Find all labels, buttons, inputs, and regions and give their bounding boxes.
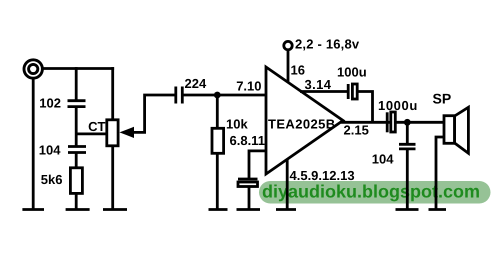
svg-text:16: 16 [291,63,305,78]
svg-text:CT: CT [88,119,105,134]
wire C5 to ground [248,187,251,210]
wire pin 16 [287,51,290,84]
capacitor C4 100u [348,84,357,99]
supply terminal 2,2-16,8v [284,41,292,49]
wire C7 to ground [406,149,409,209]
wire C2 to R1 [75,153,78,169]
svg-text:2,2 - 16,8v: 2,2 - 16,8v [295,37,360,52]
wire node to R2 [216,95,219,128]
capacitor C5 bypass [238,179,258,187]
wire R2 to ground [216,153,219,209]
ground R2 [209,208,228,211]
watermark pill diyaudioku.blogspot.com [259,181,491,204]
svg-text:2.15: 2.15 [344,123,369,138]
junction node output [404,119,411,126]
svg-text:102: 102 [39,96,61,111]
junction node input [214,92,221,99]
ground jack [22,208,44,211]
wire pin 4.5.9.12.13 to ground [286,159,289,209]
wire jack down to ground [32,78,35,209]
wire C1 to C2 [75,107,78,147]
capacitor C1 102 [68,101,86,107]
wire node to C7 [406,122,409,144]
input jack J1 [24,60,42,78]
svg-text:diyaudioku.blogspot.com: diyaudioku.blogspot.com [262,182,480,202]
svg-text:5k6: 5k6 [41,172,63,187]
capacitor C3 224 [176,87,183,104]
svg-text:6.8.11: 6.8.11 [230,133,265,148]
svg-text:3.14: 3.14 [305,77,332,92]
capacitor C7 104 [399,144,416,149]
wire R1 to ground [75,193,78,209]
resistor R1 5k6 [70,168,82,194]
wire pin 2.15 output rail [341,121,444,124]
speaker SP [444,107,468,153]
resistor R2 10k [212,128,224,153]
ground pot [103,208,127,211]
svg-text:100u: 100u [337,65,367,80]
wire jack to top rail [43,67,115,70]
wiper arrow of CT [120,95,176,138]
svg-text:SP: SP [433,91,452,107]
wire pin 6.8.11 [249,151,265,178]
capacitor C6 1000u [387,112,395,132]
svg-text:4.5.9.12.13: 4.5.9.12.13 [290,168,355,183]
wire node to pot left [76,132,106,135]
wire speaker to ground [436,137,444,209]
svg-text:104: 104 [372,152,394,167]
wire top rail down to C1 [75,67,78,100]
wire pin 3.14 [300,90,347,93]
svg-text:TEA2025B: TEA2025B [268,117,336,132]
ground speaker [429,208,447,211]
wire C4 to output rail [357,92,372,123]
potentiometer CT [107,120,118,146]
ground R1 [66,208,90,211]
op-amp U1 TEA2025B [266,67,343,174]
svg-text:10k: 10k [226,117,248,132]
wire C3 to IC input [182,94,265,97]
svg-text:1000u: 1000u [378,98,418,113]
svg-text:7.10: 7.10 [236,79,261,94]
wire top rail down to pot [111,67,114,120]
svg-text:224: 224 [185,76,207,91]
wire pot to ground [111,146,114,209]
capacitor C2 104 [68,147,86,153]
ground C5 [237,208,261,211]
svg-text:104: 104 [39,143,61,158]
ground IC [276,208,296,211]
ground C7 [396,208,419,211]
